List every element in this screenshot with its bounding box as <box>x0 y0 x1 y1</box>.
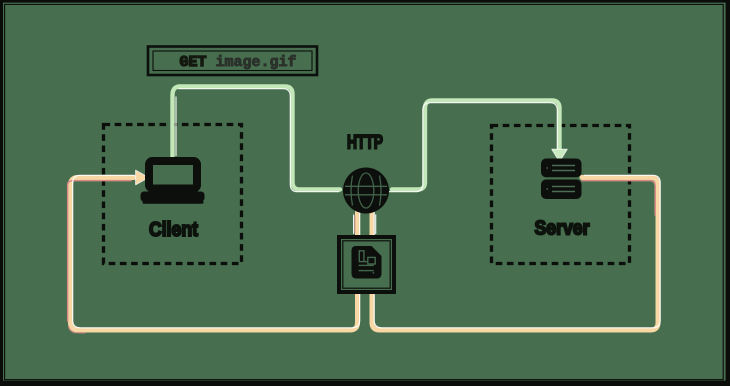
globe icon (HTTP) <box>343 168 389 214</box>
wire orange response path B (globe down, bottom, left, up, arrow into client) <box>68 175 360 332</box>
frame outer border <box>0 0 730 3</box>
svg-text:GET image.gif: GET image.gif <box>179 54 296 71</box>
svg-text:Client: Client <box>149 219 198 241</box>
svg-text:Server: Server <box>535 218 590 240</box>
wire white edge details near globe <box>354 215 376 234</box>
server dashed box <box>492 126 630 264</box>
wire green request path right (globe to server) <box>389 101 560 192</box>
document box <box>339 237 394 292</box>
laptop icon (client) <box>141 161 205 204</box>
arrowhead orange into client <box>136 170 149 185</box>
GET image.gif label box <box>148 47 317 76</box>
document/file icon <box>352 246 382 279</box>
arrowhead green into server <box>552 149 567 162</box>
wire orange response path A (server right, down, bottom, up into document/globe) <box>372 175 660 330</box>
svg-text:HTTP: HTTP <box>347 133 383 154</box>
server icon <box>541 159 582 200</box>
wire green request path left (client up over to globe) <box>173 87 341 192</box>
client dashed box <box>104 125 242 264</box>
frame bottom thick edge <box>0 381 730 386</box>
